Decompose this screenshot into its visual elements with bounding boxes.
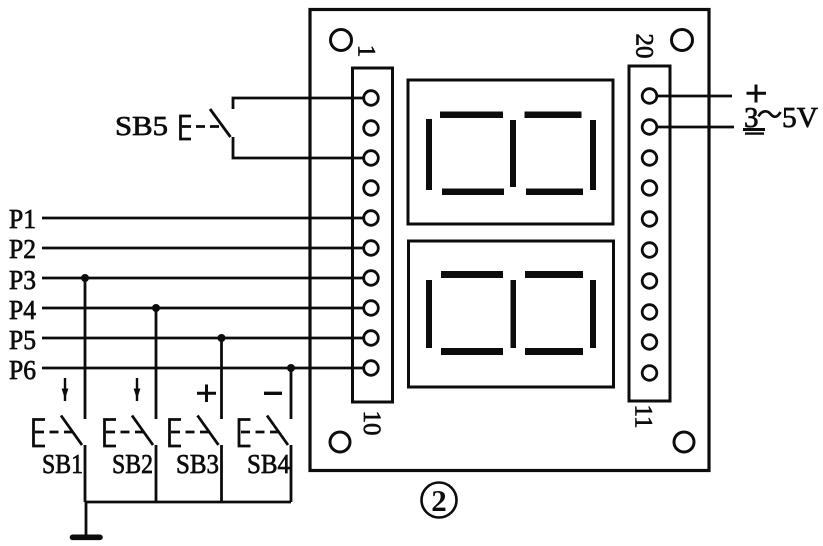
arrow press indicator SB2 (134, 378, 141, 401)
J2 pin 20 (642, 89, 657, 104)
svg-text:1: 1 (353, 45, 380, 58)
mounting hole bottom-left (330, 432, 350, 452)
node junction P5/SB3 (218, 334, 226, 342)
J1 pin 9 (364, 331, 379, 346)
J2 pin 17 (642, 181, 657, 196)
minus indicator SB4 (264, 392, 282, 395)
svg-text:11: 11 (630, 404, 657, 428)
node junction P6/SB4 (287, 364, 295, 372)
DS2 segment middle vertical (511, 280, 517, 348)
J1 pin 5 (364, 211, 379, 226)
J2 pin 12 (642, 335, 657, 350)
wire P3 branch to SB1 (84, 278, 87, 419)
wire P5 to J1 pin9 (42, 337, 364, 340)
J2 pin 15 (642, 243, 657, 258)
DS1 segment top-left (440, 112, 503, 119)
connector J2 body (right header) (629, 66, 670, 401)
DS1 segment bottom-left (442, 189, 504, 196)
DS1 segment middle vertical (510, 120, 516, 187)
wire P2 to J1 pin6 (42, 247, 364, 250)
switch SB5 lever (210, 109, 231, 137)
arrow press indicator SB1 (62, 378, 69, 401)
DS2 segment top-right (525, 271, 583, 278)
J2 pin 14 (642, 274, 657, 289)
DS2 segment right vertical (590, 280, 596, 348)
switch SB4 actuator bracket (239, 420, 251, 447)
svg-text:20: 20 (631, 34, 658, 59)
svg-text:3: 3 (744, 102, 759, 134)
wire SB4 to ground rail (290, 445, 293, 502)
J1 pin 10 (364, 361, 379, 376)
mounting hole top-right (672, 30, 693, 51)
svg-text:SB4: SB4 (247, 449, 290, 479)
switch SB3 actuator bracket (170, 420, 182, 447)
node junction P4/SB2 (152, 304, 160, 312)
wire SB5 bottom contact to J1 pin3 (233, 137, 364, 158)
J2 pin 18 (642, 151, 657, 166)
J1 pin 7 (364, 271, 379, 286)
J2 pin 19 (642, 120, 657, 135)
connector J1 body (left header) (353, 68, 393, 402)
DS1 segment bottom-right (526, 189, 583, 196)
node junction P3/SB1 (81, 274, 89, 282)
wire P1 to J1 pin5 (42, 217, 364, 220)
wire SB5 top contact to J1 pin1 (233, 98, 364, 109)
DS1 segment right vertical (590, 120, 596, 190)
switch SB1 actuator dashed link (35, 431, 73, 434)
svg-text:SB3: SB3 (176, 449, 219, 479)
wire P6 branch to SB4 (290, 368, 293, 419)
svg-text:P4: P4 (9, 295, 36, 325)
J1 pin 1 (364, 91, 379, 106)
J2 pin 13 (642, 305, 657, 320)
switch SB1 actuator bracket (34, 420, 46, 447)
wire common ground rail (85, 501, 291, 504)
J1 pin 2 (364, 121, 379, 136)
mounting hole bottom-right (674, 432, 694, 452)
svg-text:P5: P5 (9, 325, 36, 355)
svg-text:SB1: SB1 (42, 449, 83, 479)
plus terminal mark (747, 85, 767, 103)
wire SB1 to ground rail (84, 445, 87, 502)
minus terminal mark second stroke (745, 132, 764, 134)
J1 pin 4 (364, 181, 379, 196)
wire P4 to J1 pin8 (42, 307, 364, 310)
J2 pin 11 (642, 366, 657, 381)
J1 pin 6 (364, 241, 379, 256)
board outline (310, 10, 709, 471)
switch SB5 actuator dashed link (182, 125, 219, 128)
wire SB3 to ground rail (220, 445, 223, 502)
J1 pin 8 (364, 301, 379, 316)
switch SB2 lever (132, 416, 153, 446)
wire P3 to J1 pin7 (42, 277, 364, 280)
wire SB2 to ground rail (155, 445, 158, 502)
svg-text:10: 10 (358, 411, 385, 436)
switch SB1 lever (61, 416, 82, 446)
DS1 segment top-right (525, 112, 582, 119)
wire rail to ground symbol (85, 502, 88, 535)
svg-text:P2: P2 (9, 234, 36, 264)
switch SB2 actuator bracket (105, 420, 117, 447)
mounting hole top-left (331, 30, 352, 51)
display DS1 body (408, 80, 613, 224)
svg-text:2: 2 (431, 483, 447, 518)
plus indicator SB3 (197, 385, 216, 403)
figure caption circled 2 (422, 483, 457, 519)
DS2 segment bottom-right (525, 348, 583, 355)
display DS2 body (409, 241, 614, 387)
J2 pin 16 (642, 212, 657, 227)
minus terminal mark (underline of 3) (743, 128, 765, 131)
wire P5 branch to SB3 (220, 338, 223, 419)
svg-text:SB2: SB2 (112, 449, 153, 479)
DS2 segment top-left (441, 271, 503, 278)
wire J2 pin20 to plus terminal (657, 95, 733, 98)
ground (73, 534, 101, 540)
switch SB3 lever (198, 416, 219, 446)
switch SB5 actuator bracket (181, 116, 192, 139)
wire J2 pin19 to minus terminal (657, 126, 735, 129)
svg-text:P1: P1 (9, 204, 36, 234)
switch SB4 lever (267, 416, 288, 446)
J1 pin 3 (364, 151, 379, 166)
wire P6 to J1 pin10 (42, 367, 364, 370)
switch SB2 actuator dashed link (106, 431, 144, 434)
svg-text:5V: 5V (782, 102, 818, 134)
DS1 segment left vertical (426, 119, 432, 190)
switch SB4 actuator dashed link (241, 431, 279, 434)
svg-text:P6: P6 (9, 355, 36, 385)
label supply voltage tilde (759, 111, 781, 116)
wire P4 branch to SB2 (155, 308, 158, 419)
switch SB3 actuator dashed link (171, 431, 209, 434)
svg-text:SB5: SB5 (115, 111, 168, 141)
DS2 segment left vertical (426, 280, 432, 348)
DS2 segment bottom-left (441, 348, 503, 355)
svg-text:P3: P3 (9, 265, 36, 295)
